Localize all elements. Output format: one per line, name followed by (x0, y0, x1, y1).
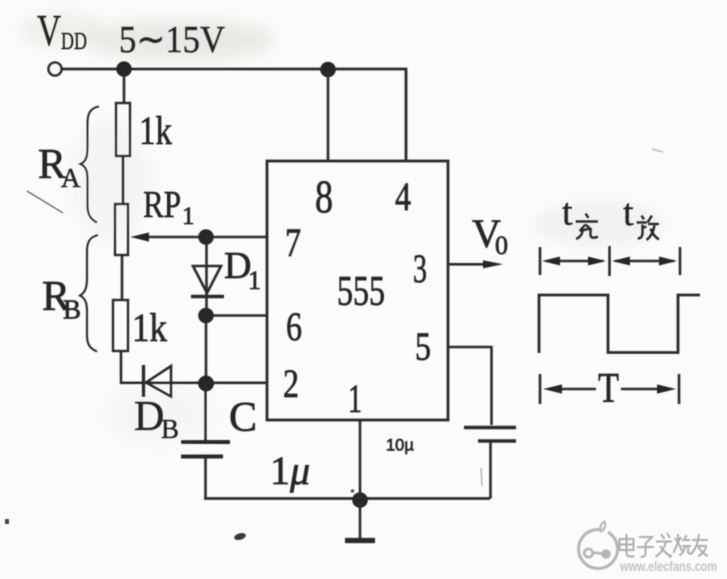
svg-text:DD: DD (61, 29, 87, 55)
capacitor C plates (181, 440, 230, 444)
svg-text:8: 8 (315, 171, 333, 223)
diode D1 (193, 266, 221, 293)
waveform (539, 295, 700, 353)
dim line T right arrow (621, 388, 670, 390)
artifact dash upper right (652, 149, 663, 152)
svg-text:1: 1 (182, 203, 195, 230)
resistor RA 1k (116, 103, 130, 156)
wire down to D1 (205, 237, 208, 296)
wire pin5 to cap (448, 347, 492, 425)
junction VDD rail (116, 61, 132, 77)
junction pin7 (198, 229, 214, 245)
wire pin8 drop (327, 69, 330, 161)
svg-text:B: B (161, 414, 179, 444)
wire top rail (62, 69, 407, 161)
brace RA (81, 107, 100, 223)
svg-text:A: A (61, 163, 81, 193)
svg-text:5: 5 (415, 324, 431, 369)
terminal VDD (49, 63, 62, 76)
dim tick middle (608, 246, 611, 276)
wiper arrow (147, 236, 204, 239)
svg-text:2: 2 (283, 361, 299, 406)
svg-text:B: B (63, 295, 81, 325)
svg-text:1k: 1k (139, 108, 172, 153)
artifact dash (481, 468, 482, 486)
wire capacitor to rail (204, 458, 207, 498)
artifact speck near ground (351, 489, 355, 493)
dim tick T left (539, 374, 542, 404)
junction pin8 rail (320, 62, 336, 78)
junction ground (352, 492, 368, 508)
dim tick right (679, 247, 682, 275)
dim tick T right (678, 374, 681, 404)
artifact speck (233, 532, 246, 541)
svg-text:RP: RP (143, 184, 181, 226)
svg-text:0: 0 (495, 231, 508, 260)
svg-text:T: T (598, 366, 619, 412)
paper mottling (20, 14, 665, 445)
svg-text:1μ: 1μ (270, 448, 310, 493)
wire 10u to rail (489, 441, 492, 499)
svg-text:t: t (562, 192, 573, 234)
dim tick left (539, 247, 542, 275)
dim line t-charge (546, 260, 603, 262)
svg-text:5∼15V: 5∼15V (119, 19, 225, 61)
resistor RB 1k (113, 300, 128, 351)
wire D1 to junction pin6 (205, 297, 208, 315)
wire DB to junction pin2 (142, 381, 266, 384)
wire junction to pin7 (206, 236, 266, 239)
wire RP1 to RB (121, 255, 124, 300)
svg-text:V: V (37, 6, 61, 55)
dim line t-discharge (615, 260, 674, 262)
svg-text:6: 6 (286, 304, 302, 349)
svg-text:1: 1 (248, 266, 261, 295)
junction pin6 (198, 308, 214, 324)
svg-text:t: t (623, 192, 634, 234)
svg-text:C: C (229, 395, 257, 441)
svg-text:4: 4 (395, 174, 411, 219)
svg-text:555: 555 (337, 269, 385, 315)
dim line T left arrow (549, 388, 596, 390)
brace RB (80, 235, 98, 352)
wire junction to pin6 (206, 314, 266, 317)
svg-text:1k: 1k (132, 305, 167, 350)
artifact diagonal line (27, 191, 63, 213)
watermark logo (579, 522, 618, 569)
ground (359, 500, 362, 538)
svg-text:3: 3 (413, 246, 427, 291)
svg-text:D: D (134, 394, 164, 440)
potentiometer RP1 (115, 204, 128, 255)
svg-text:1: 1 (348, 376, 362, 421)
wire VDD to RA (123, 69, 126, 103)
wire node C to capacitor (204, 383, 207, 441)
IC 555 box (267, 161, 448, 420)
wire bottom rail (204, 497, 490, 500)
wire node column (205, 315, 208, 383)
wire pin1 (359, 420, 362, 498)
diode DB (142, 365, 145, 397)
svg-text:7: 7 (285, 220, 301, 265)
capacitor 10u plates (464, 426, 516, 430)
svg-text:www.elecfans.com: www.elecfans.com (619, 558, 717, 574)
artifact speck bottom-left (5, 519, 9, 524)
wire RB to DB (121, 351, 145, 383)
junction pin2 node C (198, 376, 214, 392)
wire RA to RP1 (122, 156, 125, 204)
watermark text (620, 533, 709, 558)
wire output pin3 (448, 263, 487, 266)
svg-text:10µ: 10µ (386, 437, 414, 455)
